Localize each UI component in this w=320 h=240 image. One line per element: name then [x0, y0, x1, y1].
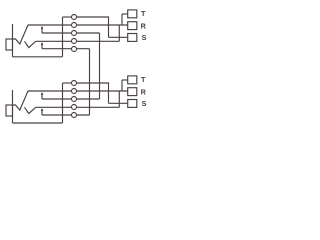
terminal R1 square [128, 22, 137, 30]
wire T1 vertical [121, 14, 123, 25]
wire S2 vertical [108, 82, 110, 103]
solder lug 3 J1 [72, 31, 77, 36]
solder lug 4 J1 [72, 39, 77, 44]
wire lug1 to sleeve terminal J1 [77, 16, 109, 18]
svg-text:R: R [141, 22, 147, 31]
jack J1 tip contact line [28, 24, 128, 26]
jack J1 ring switch stem [41, 45, 43, 49]
jack J2 terminal bus [62, 83, 64, 123]
jack J1 tip normal line [42, 32, 100, 34]
svg-text:S: S [142, 33, 147, 42]
solder lug 5 J2 [72, 113, 77, 118]
solder lug 2 J2 [72, 89, 77, 94]
jack J2 ring normal line [42, 114, 90, 116]
terminal T1 square [128, 10, 137, 18]
jack J1 ring spring [25, 41, 36, 47]
jack J2 tip switch stem [41, 95, 43, 99]
wire lug1 to sleeve terminal J2 [77, 82, 109, 84]
solder lug 5 J1 [72, 47, 77, 52]
jack J1 tip switch arrowhead [41, 26, 44, 29]
jack J2 sleeve line [13, 122, 63, 124]
svg-text:T: T [141, 9, 146, 18]
jack J2 ring contact line [36, 106, 120, 108]
jack J1 terminal bus [62, 17, 64, 57]
wire lug1 left stub J1 [63, 16, 72, 18]
wire R1 vertical [118, 25, 120, 41]
wire lug1 left stub J2 [63, 82, 72, 84]
wire R2 vertical [118, 91, 120, 107]
jack J2 tip spring [13, 91, 29, 110]
jack J2 ring spring [25, 107, 36, 113]
solder lug 1 J1 [72, 15, 77, 20]
jack J1 ring contact line [36, 40, 120, 42]
wire ring normal J1 to J2 [89, 49, 91, 115]
jack J1 sleeve line [13, 56, 63, 58]
wire S1 vertical [108, 16, 110, 37]
svg-text:S: S [142, 99, 147, 108]
jack J2 bushing [6, 105, 13, 116]
wire tip normal J1 to J2 [99, 33, 101, 99]
jack J2 tip switch arrowhead [41, 92, 44, 95]
jack J2 tip contact line [28, 90, 128, 92]
terminal R2 square [128, 88, 137, 96]
jack J1 bushing [6, 39, 13, 50]
jack J1 tip switch stem [41, 29, 43, 33]
wire T2 vertical [121, 80, 123, 91]
jack J1 ring normal line [42, 48, 90, 50]
terminal S2 square [128, 100, 137, 108]
solder lug 1 J2 [72, 81, 77, 86]
wire S2 stub [109, 102, 129, 104]
jack J1 body left edge [12, 24, 14, 57]
solder lug 3 J2 [72, 97, 77, 102]
terminal T2 square [128, 76, 137, 84]
wire S1 stub [109, 36, 129, 38]
solder lug 2 J1 [72, 23, 77, 28]
wire T1 stub [122, 13, 128, 15]
terminal S1 square [128, 34, 137, 42]
jack J1 ring switch arrowhead [41, 42, 44, 45]
solder lug 4 J2 [72, 105, 77, 110]
svg-text:R: R [141, 88, 147, 97]
wire T2 stub [122, 79, 128, 81]
jack J1 tip spring [13, 25, 29, 44]
svg-text:T: T [141, 75, 146, 84]
jack J2 tip normal line [42, 98, 100, 100]
jack J2 ring switch stem [41, 111, 43, 115]
jack J2 ring switch arrowhead [41, 108, 44, 111]
jack J2 body left edge [12, 90, 14, 123]
